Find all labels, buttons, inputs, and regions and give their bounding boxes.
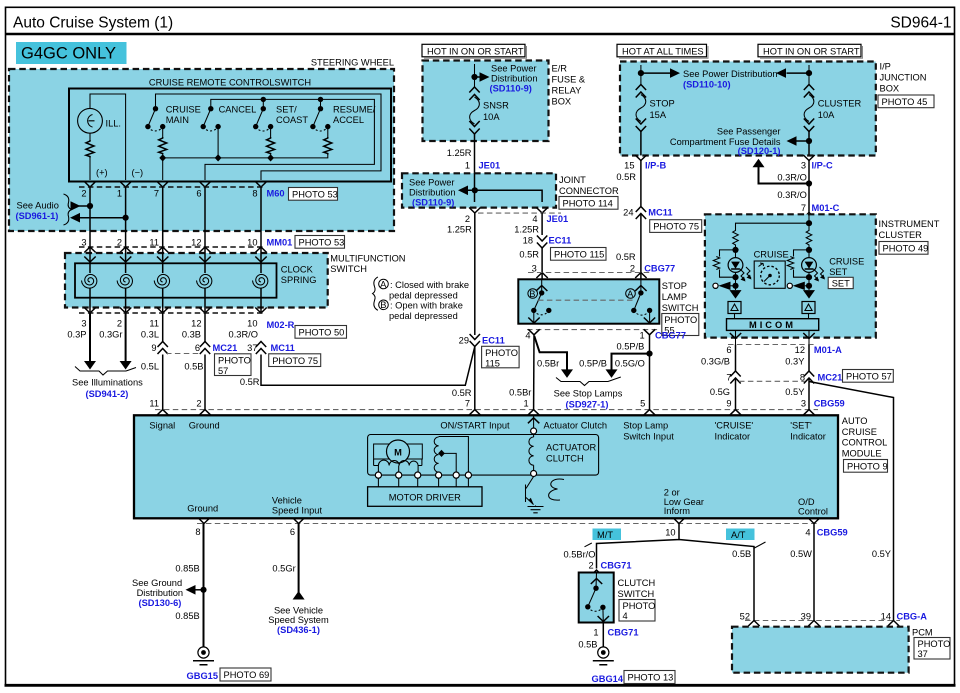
svg-text:EC11: EC11 [549, 236, 572, 246]
svg-text:See Audio: See Audio [17, 201, 59, 211]
MC21 in-line connector [151, 342, 237, 355]
svg-text:0.85B: 0.85B [175, 564, 199, 574]
PCM box [732, 627, 909, 673]
svg-text:STEERING WHEEL: STEERING WHEEL [311, 58, 394, 68]
svg-text:9: 9 [726, 399, 731, 409]
motor driver node circles [375, 472, 471, 478]
svg-text:39: 39 [801, 611, 811, 621]
see power distribution (SD110-10) [638, 68, 812, 89]
svg-text:See Passenger: See Passenger [717, 127, 781, 137]
svg-text:Ground: Ground [187, 504, 218, 514]
PCM connector line [745, 620, 900, 622]
M60 pin numbers [81, 189, 257, 199]
svg-text:14: 14 [881, 611, 891, 621]
PCM pin chevrons [748, 621, 759, 627]
svg-text:MODULE: MODULE [842, 448, 882, 458]
I/P JUNCTION BOX [620, 62, 876, 156]
svg-text:STOP: STOP [650, 99, 675, 109]
svg-text:EC11: EC11 [482, 336, 505, 346]
left down arrow [730, 290, 742, 299]
0.3R/O up-arrow branch [753, 159, 813, 187]
JOINT CONNECTOR label [559, 175, 619, 196]
MC11 in-line connector (37) [247, 342, 295, 355]
ground wire 0.85B [203, 524, 205, 648]
svg-text:M60: M60 [267, 189, 285, 199]
svg-text:0.5P/B: 0.5P/B [579, 359, 607, 369]
svg-text:PHOTO 75: PHOTO 75 [653, 222, 699, 232]
see ground distribution [132, 578, 207, 608]
A/T slash [754, 542, 766, 549]
svg-text:: Open with brake: : Open with brake [390, 301, 463, 311]
svg-text:Indicator: Indicator [790, 431, 826, 441]
svg-text:11: 11 [149, 238, 159, 248]
svg-text:CLOCK: CLOCK [281, 265, 314, 275]
MC11-24 in-line connector [623, 207, 672, 220]
svg-text:Actuator Clutch: Actuator Clutch [544, 421, 608, 431]
svg-text:0.5Gr: 0.5Gr [272, 564, 295, 574]
svg-text:A: A [380, 279, 387, 289]
right zener box [802, 302, 815, 314]
svg-text:6: 6 [195, 343, 200, 353]
I/P-C pin 3 [801, 155, 833, 171]
M/T tag [593, 529, 622, 541]
svg-text:Ground: Ground [189, 421, 220, 431]
svg-text:4: 4 [532, 214, 537, 224]
PHOTO 69 box [220, 668, 271, 681]
svg-text:4: 4 [525, 330, 530, 340]
svg-text:3: 3 [81, 319, 86, 329]
svg-text:3: 3 [81, 238, 86, 248]
MC11-24 PHOTO 75 box [650, 220, 702, 233]
wires M01-A to MC21 [736, 345, 810, 372]
left diode to sensor circle [713, 282, 736, 290]
PHOTO 55 box [662, 314, 699, 336]
svg-text:7: 7 [154, 189, 159, 199]
svg-text:PHOTO 9: PHOTO 9 [847, 462, 888, 472]
svg-text:CLUTCH: CLUTCH [546, 454, 584, 464]
wire size labels 0.3P 0.3Gr 0.3L 0.3B 0.3R/O [67, 330, 258, 340]
svg-text:1: 1 [465, 161, 470, 171]
svg-text:0.5B: 0.5B [184, 362, 203, 372]
EC11-29 PHOTO 115 box [482, 346, 519, 368]
AUTO CRUISE CONTROL MODULE box [134, 415, 838, 518]
svg-text:0.5Y: 0.5Y [785, 387, 804, 397]
inner rail to pin 6 [205, 99, 374, 180]
spiral coils [82, 274, 268, 288]
svg-text:9: 9 [151, 343, 156, 353]
svg-text:0.5Br/O: 0.5Br/O [563, 550, 595, 560]
E/R FUSE & RELAY BOX label [552, 64, 586, 107]
svg-text:ACTUATOR: ACTUATOR [546, 443, 597, 453]
switch B (left) [528, 279, 552, 323]
PHOTO 114 box [559, 197, 618, 210]
module bottom pin labels [187, 488, 828, 517]
CRUISE REMOTE CONTROLSWITCH box [69, 78, 391, 182]
svg-text:1: 1 [117, 189, 122, 199]
svg-text:2: 2 [81, 189, 86, 199]
svg-text:CBG77: CBG77 [655, 330, 686, 340]
svg-text:Signal: Signal [149, 421, 175, 431]
left branch: LED + parallel resistor [713, 246, 751, 290]
svg-text:115: 115 [485, 358, 500, 368]
svg-text:PHOTO 114: PHOTO 114 [563, 199, 613, 209]
wire stop lamp B out to module pin 1 [533, 335, 535, 410]
M02-R PHOTO 50 box [295, 326, 347, 339]
svg-text:0.5R: 0.5R [240, 377, 260, 387]
INSTRUMENT CLUSTER dashed box [705, 214, 876, 337]
svg-text:0.5Br: 0.5Br [537, 359, 559, 369]
svg-text:10A: 10A [483, 112, 500, 122]
svg-text:MC21: MC21 [818, 372, 843, 382]
svg-text:1.25R: 1.25R [514, 225, 539, 235]
module top pin labels [149, 421, 825, 442]
RESUME/ACCEL switch [310, 97, 376, 155]
svg-text:1: 1 [524, 399, 529, 409]
MC21 PHOTO 57 box [215, 354, 252, 376]
svg-text:A: A [627, 289, 634, 299]
svg-text:PHOTO 53: PHOTO 53 [292, 190, 338, 200]
svg-text:PHOTO 49: PHOTO 49 [883, 244, 929, 254]
fuse STOP 15A [636, 85, 646, 132]
svg-text:'SET': 'SET' [790, 421, 812, 431]
svg-text:See Ground: See Ground [132, 578, 182, 588]
svg-text:1.25R: 1.25R [447, 225, 472, 235]
svg-text:SWITCH: SWITCH [330, 264, 367, 274]
svg-text:M: M [394, 448, 402, 458]
svg-text:0.3R/O: 0.3R/O [777, 173, 806, 183]
CBG77 upper connector line [528, 272, 652, 274]
EC11-29 in-line connector [459, 334, 505, 347]
wire JE01-4 down to EC11-18 [541, 213, 543, 235]
svg-text:(SD110-10): (SD110-10) [683, 80, 731, 90]
svg-text:PHOTO: PHOTO [664, 315, 697, 325]
svg-text:CRUISE: CRUISE [166, 105, 201, 115]
fuse SNSR 10A [469, 87, 479, 134]
wire EC11-29 to module pin 7 [474, 347, 476, 410]
motor assembly outline [368, 435, 599, 476]
svg-text:0.5R: 0.5R [616, 252, 636, 262]
HOT IN ON OR START label (right) [758, 44, 863, 58]
actuator clutch coil [529, 437, 597, 471]
motor driver connection stubs [378, 478, 468, 487]
svg-text:: Closed with brake: : Closed with brake [390, 280, 469, 290]
svg-text:See Illuminations: See Illuminations [72, 378, 143, 388]
ground symbol GBG15 [193, 647, 214, 665]
svg-text:7: 7 [801, 203, 806, 213]
svg-text:12: 12 [795, 345, 805, 355]
See Audio reference [16, 194, 129, 225]
svg-text:SD964-1: SD964-1 [890, 15, 951, 32]
svg-text:(SD927-1): (SD927-1) [566, 400, 609, 410]
svg-text:RESUME/: RESUME/ [333, 105, 376, 115]
joint connector internals [409, 173, 542, 207]
svg-text:0.3P: 0.3P [67, 330, 86, 340]
svg-text:0.5R: 0.5R [519, 250, 539, 260]
HOT IN ON OR START label (left) [422, 44, 527, 58]
svg-text:A/T: A/T [731, 530, 746, 540]
svg-text:PHOTO 13: PHOTO 13 [628, 673, 674, 683]
svg-text:SNSR: SNSR [483, 101, 509, 111]
svg-text:SET: SET [829, 267, 847, 277]
module pin chevrons (top) [157, 410, 815, 416]
JOINT CONNECTOR box [402, 173, 556, 207]
svg-text:O/D: O/D [798, 497, 815, 507]
svg-text:PHOTO: PHOTO [623, 601, 656, 611]
0.5W wire module pin4 to PCM 39 [813, 524, 815, 621]
svg-text:11: 11 [149, 319, 159, 329]
svg-text:37: 37 [247, 343, 257, 353]
wires through clock spring [90, 247, 261, 313]
svg-text:2: 2 [196, 399, 201, 409]
MC11 PHOTO 75 box [269, 354, 321, 367]
svg-text:57: 57 [218, 366, 228, 376]
svg-text:6: 6 [726, 345, 731, 355]
JE01 lower connector line [478, 212, 561, 214]
svg-text:M01-A: M01-A [814, 345, 842, 355]
svg-text:0.5W: 0.5W [790, 549, 812, 559]
MICOM box [727, 319, 819, 331]
right down arrow [803, 290, 815, 299]
svg-text:0.5G: 0.5G [710, 387, 730, 397]
left zener box [728, 302, 741, 314]
svg-text:HOT AT ALL TIMES: HOT AT ALL TIMES [622, 46, 704, 56]
svg-text:JE01: JE01 [547, 214, 569, 224]
wire MC11-24 to CBG77-2 [640, 214, 642, 280]
svg-text:SET: SET [832, 278, 850, 288]
svg-text:15A: 15A [650, 110, 667, 120]
svg-text:MM01: MM01 [267, 238, 293, 248]
svg-text:3: 3 [801, 161, 806, 171]
CLOCK SPRING dashed box [65, 253, 328, 308]
rail A bottom common [163, 154, 328, 158]
svg-text:(SD130-6): (SD130-6) [139, 598, 182, 608]
wire JE01-2 down to EC11-29 [474, 213, 476, 335]
wires 0.3P 0.3Gr down to illumination arrows [89, 313, 91, 362]
svg-text:CLUTCH: CLUTCH [618, 578, 656, 588]
svg-text:(SD110-9): (SD110-9) [412, 197, 454, 207]
svg-text:0.3L: 0.3L [141, 330, 159, 340]
svg-text:CBG77: CBG77 [644, 263, 675, 273]
svg-text:0.5B: 0.5B [578, 639, 597, 649]
svg-text:G4GC ONLY: G4GC ONLY [21, 45, 116, 63]
svg-text:SWITCH: SWITCH [662, 303, 699, 313]
svg-text:See Power Distribution: See Power Distribution [683, 69, 778, 79]
svg-text:CRUISE REMOTE CONTROLSWITCH: CRUISE REMOTE CONTROLSWITCH [149, 78, 311, 88]
svg-text:ILL.: ILL. [106, 119, 122, 129]
svg-text:CRUISE: CRUISE [842, 427, 877, 437]
svg-text:COAST: COAST [276, 115, 308, 125]
STEERING WHEEL dashed box [9, 58, 394, 232]
svg-text:BOX: BOX [880, 84, 900, 94]
M01-A connector line [728, 344, 817, 346]
see passenger compartment fuse details [670, 127, 812, 157]
actuator clutch wire entry [528, 415, 539, 437]
module bottom connector line [197, 523, 818, 525]
wires MC21 to module pins 9,3 [736, 378, 810, 410]
vehicle speed arrow [293, 591, 305, 600]
left dropping resistor [733, 230, 739, 247]
svg-text:(SD120-1): (SD120-1) [738, 146, 781, 156]
svg-text:See Vehicle: See Vehicle [274, 606, 323, 616]
svg-text:RELAY: RELAY [552, 86, 582, 96]
svg-text:0.5R: 0.5R [452, 388, 472, 398]
svg-text:BOX: BOX [552, 97, 572, 107]
I/P JUNCTION BOX label [880, 62, 927, 94]
motor M [374, 440, 423, 463]
0.5B wire to ground [602, 623, 604, 648]
PHOTO 49 box [879, 242, 928, 255]
SET/COAST switch [253, 97, 308, 162]
wire CLUSTER fuse to I/P-C [808, 132, 810, 156]
clutch driver transistor [526, 477, 544, 513]
svg-text:3: 3 [801, 399, 806, 409]
G4GC ONLY tag [16, 42, 127, 64]
M02-R connector line [79, 312, 265, 314]
svg-text:M/T: M/T [597, 530, 613, 540]
svg-text:CLUSTER: CLUSTER [879, 230, 923, 240]
module bottom pin chevrons [198, 518, 819, 524]
svg-text:0.5Y: 0.5Y [872, 549, 891, 559]
svg-text:0.5L: 0.5L [141, 362, 159, 372]
wire ILL to pin 2 [89, 158, 91, 181]
svg-text:GBG15: GBG15 [187, 671, 219, 681]
svg-text:I/P: I/P [880, 62, 891, 72]
svg-text:PCM: PCM [912, 628, 933, 638]
see vehicle speed system [268, 606, 329, 636]
svg-text:6: 6 [290, 527, 295, 537]
svg-text:6: 6 [196, 189, 201, 199]
svg-text:MC11: MC11 [648, 208, 672, 218]
svg-text:0.5G/O: 0.5G/O [615, 359, 645, 369]
clutch node circles [531, 471, 537, 477]
svg-text:12: 12 [191, 319, 201, 329]
svg-text:PHOTO 115: PHOTO 115 [554, 250, 604, 260]
wire fuse to JE01 [474, 134, 476, 173]
svg-text:0.3Gr: 0.3Gr [99, 330, 122, 340]
ILL lamp loop wire [90, 94, 126, 180]
mechanical link dashed line [538, 299, 634, 301]
clutch mechanical S link [549, 479, 564, 500]
svg-text:Switch Input: Switch Input [623, 431, 674, 441]
svg-text:PHOTO 45: PHOTO 45 [882, 97, 928, 107]
svg-text:5: 5 [640, 399, 645, 409]
svg-text:0.5Br: 0.5Br [509, 388, 531, 398]
AUTO CRUISE CONTROL MODULE label [842, 416, 887, 458]
MM01 connector line [79, 246, 265, 248]
wires M60 to MM01 [90, 187, 261, 247]
svg-text:7: 7 [726, 372, 731, 382]
PHOTO 13 box [624, 671, 675, 684]
svg-text:Control: Control [798, 507, 828, 517]
svg-text:MC21: MC21 [213, 343, 238, 353]
SET boxed label [828, 277, 853, 288]
wire rail A to pin 7 [162, 158, 164, 180]
svg-text:JUNCTION: JUNCTION [880, 73, 927, 83]
svg-text:0.5B: 0.5B [732, 549, 751, 559]
svg-text:1.25R: 1.25R [447, 148, 472, 158]
svg-text:Distribution: Distribution [491, 74, 538, 84]
INSTRUMENT CLUSTER label [879, 219, 940, 240]
PHOTO 45 box [878, 95, 934, 108]
MC21 PHOTO 57 box (right) [843, 370, 894, 383]
svg-text:2: 2 [117, 319, 122, 329]
wires 11,2 to module pins [162, 355, 164, 410]
pin 10 wire split M/T A/T [597, 524, 755, 621]
svg-text:Vehicle: Vehicle [272, 496, 302, 506]
svg-text:2: 2 [630, 263, 635, 273]
svg-text:4: 4 [805, 527, 810, 537]
svg-text:MULTIFUNCTION: MULTIFUNCTION [330, 254, 405, 264]
M02-R chevrons [84, 308, 266, 314]
STOP LAMP SWITCH box [518, 279, 659, 323]
svg-text:8: 8 [252, 189, 257, 199]
wire I/P-B to MC11-24 [640, 160, 642, 206]
svg-text:Indicator: Indicator [715, 431, 751, 441]
right dropping resistor [806, 230, 812, 247]
svg-text:PHOTO 69: PHOTO 69 [224, 670, 270, 680]
svg-text:(SD941-2): (SD941-2) [86, 389, 129, 399]
svg-text:SET/: SET/ [276, 105, 297, 115]
CANCEL switch [201, 105, 257, 162]
svg-text:0.5R: 0.5R [616, 172, 636, 182]
clock spring inner box [75, 263, 277, 297]
svg-text:LAMP: LAMP [662, 292, 687, 302]
M60 connector line [79, 186, 265, 188]
svg-text:10: 10 [247, 238, 257, 248]
E/R fuse & relay box [423, 61, 549, 142]
svg-text:8: 8 [195, 527, 200, 537]
svg-text:12: 12 [191, 238, 201, 248]
svg-text:See Stop Lamps: See Stop Lamps [554, 389, 623, 399]
Ⓐ/Ⓑ legend [373, 277, 469, 321]
svg-text:0.3R/O: 0.3R/O [229, 330, 258, 340]
svg-text:GBG14: GBG14 [592, 674, 624, 684]
svg-text:pedal depressed: pedal depressed [389, 311, 458, 321]
MM01 chevrons [84, 247, 266, 253]
svg-text:pedal depressed: pedal depressed [389, 291, 458, 301]
STOP fuse feed [640, 65, 642, 86]
branch to see stop lamps (0.5Br) [534, 336, 567, 370]
svg-text:CBG59: CBG59 [817, 527, 848, 537]
junction dot 0.5P/B [646, 351, 652, 357]
svg-text:SPRING: SPRING [281, 275, 317, 285]
svg-text:Speed System: Speed System [268, 615, 329, 625]
chevrons at CBG77 lower [528, 329, 539, 335]
svg-text:I/P-B: I/P-B [645, 161, 666, 171]
outer rail to pin 8 [156, 94, 382, 180]
svg-text:ACCEL: ACCEL [333, 115, 364, 125]
svg-text:11: 11 [149, 399, 159, 409]
svg-text:INSTRUMENT: INSTRUMENT [879, 219, 940, 229]
wire stop lamp A out to module pin 5 [649, 335, 651, 410]
svg-text:15: 15 [624, 161, 634, 171]
svg-text:0.3R/O: 0.3R/O [777, 190, 806, 200]
svg-text:CBG71: CBG71 [601, 561, 632, 571]
clutch switch internals [585, 573, 609, 623]
branch to see stop lamps (0.5P/B) [612, 354, 650, 370]
M60 PHOTO 53 box [289, 188, 338, 201]
EC11-18 PHOTO 115 box [551, 248, 607, 261]
EC11-18 in-line connector [523, 236, 572, 249]
svg-text:18: 18 [523, 236, 533, 246]
illumination arrowheads [84, 361, 96, 370]
svg-text:Stop Lamp: Stop Lamp [623, 421, 668, 431]
wire STOP fuse to I/P-B [640, 132, 642, 156]
cruise gauge icon [754, 261, 785, 288]
svg-text:PHOTO 50: PHOTO 50 [299, 328, 345, 338]
wire EC11-18 to CBG77-3 [541, 248, 543, 279]
svg-text:CBG71: CBG71 [608, 627, 639, 637]
